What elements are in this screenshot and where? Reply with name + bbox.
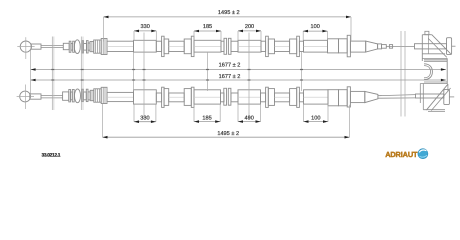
- ext line 185 left: [193, 31, 195, 40]
- dim 100 top: [303, 30, 327, 32]
- ext line 185 right top: [220, 31, 222, 40]
- ext line 185 right bottom: [219, 104, 221, 121]
- bracket bottom edge: [423, 109, 445, 111]
- top conduit g: [275, 41, 290, 51]
- bottom clevis rod: [416, 94, 444, 98]
- bottom bellow dome: [75, 89, 81, 103]
- bottom sleeve 490: [238, 90, 261, 104]
- bottom barrel small: [88, 92, 90, 100]
- bracket U notch outer arc: [424, 64, 432, 80]
- ext line 1495 bottom left: [102, 104, 104, 137]
- bottom grommet flange 3: [266, 87, 269, 107]
- top bellow dome: [74, 40, 80, 54]
- centre line adjuster pair left: [51, 37, 53, 111]
- bottom barrel striped: [94, 89, 101, 102]
- svg-text:200: 200: [245, 24, 254, 30]
- top conduit h: [299, 41, 303, 51]
- svg-text:33.0212.1: 33.0212.1: [41, 153, 60, 159]
- top cable end disc: [447, 38, 452, 55]
- svg-text:1495 ± 2: 1495 ± 2: [218, 10, 240, 16]
- bottom disc stub: [449, 96, 454, 98]
- ext line 330 left: [133, 31, 135, 40]
- bracket right face: [446, 58, 448, 84]
- bottom grommet flange 4: [297, 87, 300, 107]
- svg-text:100: 100: [311, 116, 320, 122]
- bottom grommet flange 2: [191, 87, 194, 107]
- svg-text:185: 185: [203, 24, 212, 30]
- ext line 1495 top left: [103, 17, 105, 42]
- bottom barrel step: [90, 90, 94, 100]
- bracket top tab: [425, 31, 429, 34]
- dim 185 bottom: [194, 121, 220, 123]
- top adjuster collar: [63, 43, 69, 49]
- dim 330 top: [134, 30, 156, 32]
- top inner cable rod: [41, 44, 63, 46]
- top sleeve 100: [304, 40, 328, 52]
- ext line 200 right top: [260, 31, 262, 40]
- bracket upper diagonal 1: [432, 35, 451, 54]
- svg-text:490: 490: [245, 116, 254, 122]
- bottom cable end disc: [444, 89, 450, 104]
- bracket U notch inner arc: [424, 66, 431, 78]
- top bobbin 1: [69, 41, 71, 52]
- bracket upper left edge: [421, 35, 423, 61]
- svg-text:1495 ± 2: 1495 ± 2: [217, 131, 239, 137]
- ext line 100 left: [302, 31, 304, 40]
- bracket notch top shelf: [424, 59, 447, 61]
- top barrel step: [90, 42, 94, 52]
- bottom sleeve 185: [194, 90, 221, 104]
- bottom end fitting body: [339, 90, 348, 106]
- top sleeve 185: [194, 40, 221, 52]
- top wire stop: [389, 45, 392, 49]
- top cable eyelet ring: [20, 41, 31, 52]
- ext line 1495 top right: [350, 17, 352, 41]
- ext line 330 right top: [155, 31, 157, 40]
- top bare cable wire: [386, 45, 414, 47]
- bracket upper diagonal 2: [428, 38, 447, 57]
- top grommet body 4: [290, 39, 297, 54]
- dim line 1677 upper: [31, 69, 446, 71]
- dim line 1677 lower: [31, 79, 446, 81]
- bottom bobbin 1: [69, 90, 71, 102]
- dim 490 bottom: [238, 121, 261, 123]
- ext line 330 right bottom: [155, 104, 157, 121]
- top grommet body 2: [184, 39, 191, 54]
- svg-text:185: 185: [202, 116, 211, 122]
- ext line 490 right bottom: [260, 104, 262, 121]
- bracket top edge: [422, 34, 432, 36]
- bottom end flange: [347, 87, 350, 107]
- top barrel striped: [94, 40, 102, 53]
- top conduit c: [169, 41, 185, 51]
- top eyelet crosshair: [17, 46, 34, 48]
- top conduit e: [231, 41, 238, 51]
- bottom eyelet crosshair: [17, 96, 34, 98]
- top grommet flange 2: [191, 36, 194, 56]
- bottom sleeve 330: [134, 90, 157, 104]
- top conduit a: [107, 41, 134, 51]
- svg-text:330: 330: [141, 24, 150, 30]
- bracket lower diagonal 2: [431, 88, 450, 111]
- top conduit b: [156, 41, 161, 51]
- bottom conduit b: [156, 93, 161, 102]
- top grommet flange 1: [162, 36, 165, 56]
- bottom bobbin 2: [82, 89, 83, 101]
- top end nipple: [378, 44, 382, 49]
- ext line 1677 left: [30, 50, 32, 94]
- bracket notch bottom shelf: [424, 81, 447, 83]
- top end fitting body: [339, 39, 348, 53]
- bottom end cone: [365, 91, 378, 102]
- centre line boot pair: [80, 37, 82, 111]
- bracket lower left edges: [419, 84, 421, 104]
- ext line 100 right bottom: [327, 104, 329, 121]
- bracket inner vertical: [427, 35, 429, 54]
- bottom spool flanges: [224, 88, 227, 105]
- top sleeve 200: [238, 40, 261, 52]
- ext line 100 right top: [326, 31, 328, 40]
- bottom inner cable rod: [41, 95, 63, 97]
- bottom grommet flange 1: [162, 87, 165, 107]
- bottom sleeve 100: [304, 90, 329, 104]
- centre line sleeve 185: [207, 52, 209, 91]
- top conduit f: [261, 41, 266, 51]
- dim 185 top: [194, 30, 221, 32]
- bottom conduit c: [169, 93, 185, 102]
- bracket lower diagonal 1: [426, 84, 448, 110]
- bottom grommet body 4: [290, 89, 297, 106]
- bottom end fitting step: [328, 90, 339, 106]
- top clevis rod: [415, 44, 447, 49]
- dim 200 top: [238, 30, 261, 32]
- top eyelet shank: [31, 44, 41, 49]
- svg-text:1677 ± 2: 1677 ± 2: [219, 74, 241, 80]
- bottom eyelet shank: [30, 94, 41, 99]
- equalizer bracket panel lines: [400, 31, 402, 117]
- bottom conduit f: [261, 93, 266, 102]
- top grommet flange 4: [297, 36, 300, 56]
- dim line 1495 top: [104, 16, 352, 18]
- bottom conduit h: [299, 93, 303, 102]
- bottom conduit g: [275, 93, 290, 102]
- svg-text:1677 ± 2: 1677 ± 2: [219, 62, 241, 68]
- dim line 1495 bottom: [103, 136, 350, 138]
- top conduit d: [221, 41, 224, 51]
- top end flange: [347, 35, 350, 57]
- bracket lower right face: [447, 84, 449, 91]
- top end cone: [366, 41, 378, 52]
- top grommet body 1: [164, 39, 169, 54]
- top end tube: [350, 41, 365, 52]
- top disc stub: [452, 45, 456, 47]
- bottom cable eyelet ring: [20, 91, 31, 102]
- ext line 1495 bottom right: [349, 105, 351, 137]
- bottom end tube: [350, 91, 364, 102]
- bottom barrel big: [101, 87, 107, 103]
- bottom adjuster collar: [63, 92, 69, 100]
- centre line grommet right: [301, 52, 303, 91]
- bottom bare cable wire: [378, 95, 416, 96]
- dim 330 bottom: [134, 121, 156, 123]
- centre line sleeve 330: [143, 33, 145, 120]
- top sleeve 330: [134, 40, 157, 52]
- top grommet flange 3: [266, 36, 269, 56]
- bracket upper shelf lines: [422, 53, 445, 55]
- top end fitting step: [328, 39, 339, 53]
- svg-text:ADRIAUT: ADRIAUT: [385, 150, 418, 159]
- top spool flanges: [224, 38, 227, 54]
- centre line sleeve 200-490: [248, 33, 250, 120]
- dim 100 bottom: [304, 121, 329, 123]
- bottom conduit d: [221, 93, 225, 102]
- bottom grommet body 3: [268, 89, 274, 106]
- top barrel big: [101, 39, 107, 55]
- bottom grommet body 1: [164, 89, 169, 106]
- bottom grommet body 2: [184, 89, 191, 106]
- crossing tick marks: [51, 69, 54, 70]
- top bobbin 2: [82, 41, 83, 53]
- ext line 200-490 left: [237, 31, 239, 40]
- bottom conduit a: [107, 92, 134, 101]
- bottom conduit e: [231, 93, 238, 102]
- top grommet body 3: [268, 39, 274, 54]
- top barrel small: [88, 43, 90, 50]
- svg-text:100: 100: [311, 24, 320, 30]
- svg-text:330: 330: [140, 116, 149, 122]
